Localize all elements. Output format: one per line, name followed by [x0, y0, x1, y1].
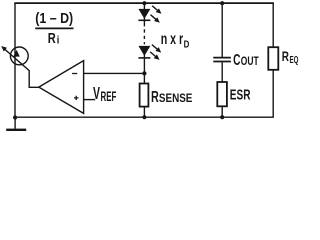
svg-text:OUT: OUT: [241, 54, 259, 68]
svg-text:n x r: n x r: [161, 31, 184, 48]
svg-text:i: i: [57, 35, 60, 47]
svg-text:ESR: ESR: [230, 88, 251, 104]
svg-text:(1 – D): (1 – D): [35, 11, 73, 27]
svg-text:C: C: [233, 52, 240, 69]
svg-text:REF: REF: [101, 88, 117, 104]
svg-text:V: V: [93, 84, 100, 103]
svg-text:SENSE: SENSE: [159, 91, 193, 105]
svg-text:R: R: [48, 30, 56, 47]
svg-text:EQ: EQ: [290, 55, 299, 66]
svg-text:R: R: [151, 89, 159, 106]
svg-text:R: R: [282, 48, 289, 64]
svg-text:D: D: [184, 39, 190, 50]
